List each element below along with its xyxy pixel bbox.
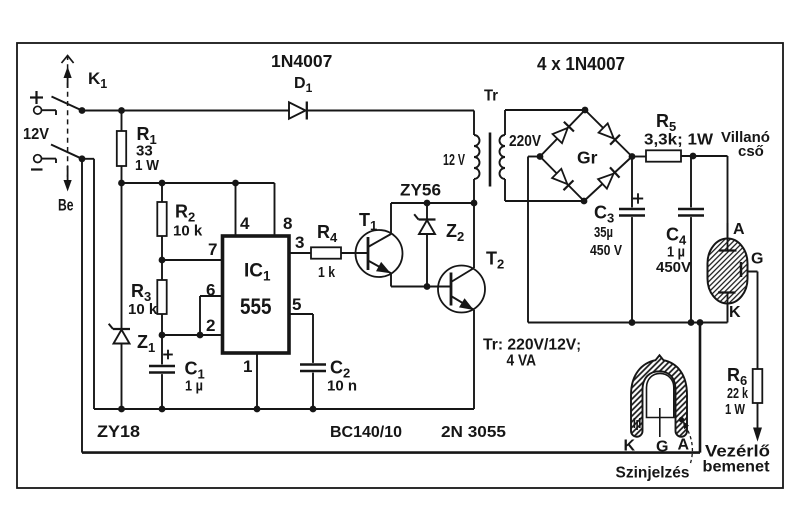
svg-text:3: 3	[295, 233, 304, 252]
svg-text:1 W: 1 W	[725, 401, 746, 418]
svg-text:2N 3055: 2N 3055	[441, 424, 506, 441]
svg-text:Be: Be	[58, 196, 74, 215]
svg-text:4 VA: 4 VA	[507, 353, 537, 370]
svg-text:ZY18: ZY18	[97, 422, 140, 441]
svg-text:Tr: Tr	[484, 88, 498, 105]
svg-text:220V: 220V	[509, 133, 542, 150]
svg-text:2: 2	[206, 316, 215, 335]
svg-text:8: 8	[283, 214, 292, 233]
svg-text:Gr: Gr	[577, 148, 598, 168]
svg-text:450V: 450V	[656, 259, 691, 276]
svg-text:12 V: 12 V	[443, 152, 465, 169]
svg-text:K: K	[624, 438, 636, 455]
svg-text:4: 4	[240, 214, 250, 233]
svg-text:1 µ: 1 µ	[667, 244, 685, 261]
svg-text:ZY56: ZY56	[400, 181, 441, 200]
svg-text:G: G	[751, 251, 763, 268]
svg-text:12V: 12V	[23, 126, 49, 143]
svg-text:5: 5	[292, 295, 301, 314]
svg-text:BC140/10: BC140/10	[330, 424, 402, 441]
svg-text:35µ: 35µ	[594, 224, 613, 241]
svg-text:A: A	[678, 437, 690, 454]
svg-text:6: 6	[206, 281, 215, 300]
svg-text:bemenet: bemenet	[703, 459, 771, 476]
svg-text:1 k: 1 k	[318, 264, 336, 281]
svg-text:10 n: 10 n	[327, 378, 357, 395]
svg-text:10 k: 10 k	[128, 301, 158, 318]
svg-text:1 µ: 1 µ	[185, 378, 203, 395]
svg-text:1 W: 1 W	[135, 157, 160, 174]
svg-text:7: 7	[208, 240, 217, 259]
svg-text:Tr: 220V/12V;: Tr: 220V/12V;	[483, 337, 581, 354]
svg-text:A: A	[733, 221, 745, 238]
svg-text:Szinjelzés: Szinjelzés	[616, 465, 690, 482]
svg-text:cső: cső	[738, 143, 764, 160]
svg-text:K: K	[729, 304, 741, 321]
svg-text:3,3k; 1W: 3,3k; 1W	[644, 132, 713, 149]
svg-text:4 x 1N4007: 4 x 1N4007	[537, 54, 625, 74]
svg-text:G: G	[656, 439, 668, 456]
svg-text:22 k: 22 k	[727, 385, 748, 402]
svg-text:1N4007: 1N4007	[271, 51, 332, 71]
svg-text:450 V: 450 V	[590, 242, 622, 259]
svg-text:10 k: 10 k	[173, 223, 203, 240]
svg-text:1: 1	[243, 357, 252, 376]
svg-text:555: 555	[240, 294, 272, 319]
